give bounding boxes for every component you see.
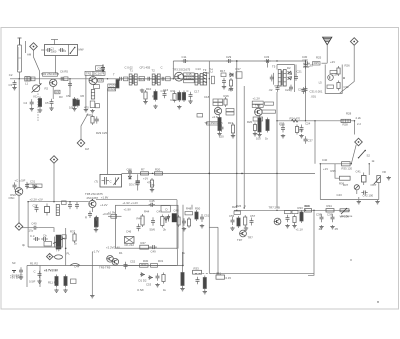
resistor R12: [178, 91, 181, 103]
svg-text:C43: C43: [337, 193, 343, 197]
capacitor C43 box: [71, 279, 77, 284]
svg-text:C22: C22: [285, 88, 291, 92]
wire V6 R28 down: [354, 121, 356, 135]
svg-text:TR6: TR6: [255, 103, 261, 107]
svg-text:+3V BATT: +3V BATT: [10, 276, 23, 280]
wire V14: [182, 252, 184, 271]
wire V5: [314, 121, 316, 164]
transistor TR4: [214, 107, 221, 114]
diode D5: [140, 273, 145, 276]
capacitor C5: [50, 99, 54, 107]
svg-text:R7: R7: [141, 168, 145, 172]
svg-text:R30: R30: [141, 263, 147, 267]
svg-text:C40: C40: [322, 158, 328, 162]
junction: [236, 60, 237, 61]
ground mid cluster: [244, 227, 248, 231]
svg-text:47k: 47k: [150, 183, 155, 187]
junction osc right: [65, 248, 67, 250]
svg-text:220: 220: [219, 135, 224, 139]
svg-text:earphone: earphone: [341, 214, 353, 218]
resistor R43: [64, 275, 67, 288]
svg-text:R29 C25: R29 C25: [96, 131, 107, 135]
svg-text:R44: R44: [144, 210, 150, 214]
resistor R33 box: [193, 270, 202, 274]
switch S2: [358, 150, 366, 159]
ground C51: [200, 224, 204, 228]
svg-text:R33: R33: [298, 206, 304, 210]
ground R10: [143, 100, 147, 104]
IF transformer T1: [129, 74, 137, 85]
resistor R23: [295, 125, 298, 135]
volume control VR1: [340, 208, 349, 214]
junction: [236, 210, 237, 211]
ground C45b: [37, 280, 41, 284]
ground TR2 left: [84, 108, 88, 112]
svg-text:AM: AM: [27, 53, 32, 57]
ground C19: [222, 85, 226, 89]
resistor R37: [73, 232, 76, 243]
wire TP6 right: [21, 227, 32, 229]
capacitor C9 box: [98, 78, 103, 82]
svg-text:+1.9V: +1.9V: [108, 210, 116, 214]
wire bottom mid rail2: [125, 265, 177, 267]
svg-text:CF1: CF1: [139, 77, 145, 81]
wire top rail: [173, 60, 305, 62]
svg-text:C38: C38: [316, 213, 322, 217]
capacitor C54: [196, 277, 200, 285]
resistor R9h box: [124, 77, 128, 81]
capacitor C19: [222, 78, 226, 86]
wire TR8 down: [91, 208, 93, 213]
ground chain1: [153, 105, 157, 109]
svg-text:C51: C51: [216, 271, 222, 275]
resistor R21: [258, 116, 261, 134]
resistor R47 box: [140, 245, 149, 249]
svg-text:C52: C52: [130, 260, 136, 264]
lamp/ellipse symbol: [55, 255, 63, 259]
svg-text:17p: 17p: [29, 229, 34, 233]
resistor R60: [300, 210, 303, 223]
test point TP2: [350, 38, 358, 46]
oscillator coil T7: [53, 235, 65, 249]
resistor R52 box: [151, 264, 158, 268]
capacitor C8 box: [95, 104, 99, 108]
junction: [27, 201, 28, 202]
wire conv left: [295, 65, 297, 76]
label T3 box: [184, 75, 195, 79]
ground R19: [231, 134, 235, 138]
svg-text:C2: C2: [63, 49, 67, 53]
svg-text:R31: R31: [158, 259, 164, 263]
transistor TR3: [175, 72, 184, 81]
ground C50: [182, 227, 186, 231]
wire det top: [277, 64, 295, 66]
wire TR2 label down: [85, 75, 87, 108]
diode D2: [288, 71, 292, 74]
svg-text:C5: C5: [45, 101, 49, 105]
junction: [354, 120, 355, 121]
junction: [236, 173, 237, 174]
wire TR1 emitter: [52, 87, 54, 100]
junction: [313, 210, 314, 211]
ground rc2: [292, 224, 296, 228]
capacitor C44: [19, 267, 23, 275]
coil T4 primary: [203, 73, 206, 86]
svg-text:T2: T2: [152, 69, 156, 73]
ground R21: [257, 133, 261, 137]
svg-text:3p: 3p: [22, 243, 26, 247]
junction: [276, 120, 277, 121]
svg-text:C19: C19: [228, 88, 234, 92]
svg-text:C21: C21: [297, 70, 303, 74]
wire RF rail: [10, 78, 207, 80]
svg-text:C17: C17: [194, 90, 200, 94]
ground R54: [180, 287, 184, 291]
diode D3: [288, 77, 292, 80]
electrolytic C41: [362, 173, 367, 186]
capacitor C29: [226, 59, 233, 63]
resistor R39 small: [95, 218, 98, 227]
capacitor C51: [200, 214, 204, 222]
wire V13: [177, 249, 179, 265]
resistor R63 box: [155, 172, 163, 175]
resistor R8 box: [90, 101, 95, 108]
transistor TR9a: [107, 255, 114, 262]
tuning capacitor VC1: [32, 84, 42, 93]
resistor R5: [64, 77, 68, 81]
svg-text:C39: C39: [327, 213, 333, 217]
wire R36 loop: [335, 164, 340, 178]
resistor R28 body: [341, 119, 351, 122]
svg-text:0.5/F: 0.5/F: [29, 280, 36, 284]
svg-text:R37: R37: [343, 183, 349, 187]
wire bottom rail entry: [209, 226, 218, 228]
label right of TR6: [265, 102, 274, 105]
svg-text:T4: T4: [210, 68, 214, 72]
svg-text:T5: T5: [272, 65, 276, 69]
svg-text:+1.7V: +1.7V: [92, 250, 100, 254]
svg-text:C37: C37: [308, 139, 314, 143]
wire osc bottom: [28, 246, 62, 248]
svg-text:C23: C23: [279, 122, 285, 126]
ground C3: [12, 86, 16, 90]
capacitor C2: [59, 48, 65, 52]
svg-text:4.7k: 4.7k: [170, 98, 176, 102]
svg-text:C13: C13: [196, 67, 202, 71]
svg-text:R25: R25: [314, 61, 320, 65]
ground T2: [90, 109, 94, 113]
junction AGC a: [209, 173, 211, 175]
svg-text:VR: VR: [382, 170, 386, 174]
capacitor C7: [68, 81, 72, 88]
capacitor C35: [304, 62, 308, 68]
ground right cluster: [285, 224, 289, 228]
diode D6: [148, 276, 153, 279]
svg-text:C49: C49: [151, 250, 157, 254]
junction: [209, 78, 210, 79]
ground C56: [230, 227, 234, 231]
wire V4 right: [305, 61, 307, 121]
IC X1 box: [124, 237, 134, 244]
filter CF3 box: [236, 72, 242, 78]
resistor R27 zigzag: [292, 119, 299, 122]
label TR6 l2: [252, 103, 263, 107]
junction: [369, 163, 370, 164]
svg-text:R3: R3: [56, 90, 60, 94]
svg-text:C32: C32: [344, 85, 350, 89]
label C15 box: [184, 72, 195, 76]
svg-text:R47: R47: [141, 241, 147, 245]
capacitor C42: [361, 191, 367, 195]
svg-text:R25: R25: [316, 56, 322, 60]
svg-text:C24: C24: [305, 122, 311, 126]
capacitor C6: [59, 77, 65, 81]
svg-text:R20: R20: [247, 120, 253, 124]
coil L2: [31, 77, 35, 81]
ground R31: [94, 228, 98, 232]
capacitor pair Cb: [41, 237, 48, 241]
svg-text:D: D: [166, 208, 168, 212]
svg-text:C51: C51: [204, 214, 210, 218]
svg-text:+C o.5/F: +C o.5/F: [15, 179, 26, 183]
wire TP5 down: [53, 163, 55, 201]
svg-text:+1V: +1V: [143, 177, 148, 181]
filter CF2: [166, 77, 171, 81]
wire TP2 down: [340, 45, 355, 93]
junction: [276, 60, 277, 61]
junction: [19, 78, 20, 79]
svg-text:C53: C53: [146, 283, 152, 287]
svg-text:R11 R12: R11 R12: [48, 281, 59, 285]
ground R15: [217, 132, 221, 136]
svg-text:C44: C44: [74, 265, 80, 269]
wire bottom rail dashes: [195, 272, 218, 274]
junction: [53, 201, 54, 202]
svg-text:C41: C41: [356, 170, 362, 174]
audio block box outline: [116, 205, 179, 248]
resistor R17 box: [221, 73, 226, 77]
diode D4: [165, 216, 168, 223]
box right of T7: [62, 235, 66, 239]
coil L4 dark: [116, 80, 119, 89]
capacitor C21: [276, 85, 280, 92]
svg-text:C9: C9: [97, 66, 101, 70]
capacitor C23: [281, 125, 285, 133]
wire TR4 emitter: [218, 114, 220, 117]
transistor TR12 FM conv: [328, 75, 334, 81]
wire C40 to osc: [38, 228, 54, 232]
wire gang link: [37, 94, 39, 123]
svg-text:+1.5V: +1.5V: [331, 73, 339, 77]
capacitor C17: [189, 92, 193, 100]
ground C44: [19, 276, 23, 280]
junction arrow AGC: [101, 65, 105, 73]
earphone jack J1: [354, 185, 359, 194]
capacitor C47: [151, 217, 155, 225]
ground R55: [203, 290, 207, 294]
junction: [209, 173, 210, 174]
wire TR5 down: [18, 195, 20, 222]
wire V10 left: [39, 266, 41, 288]
resistor R36 box: [340, 176, 351, 180]
resistor R3: [55, 90, 60, 94]
svg-text:R30: R30: [143, 259, 149, 263]
svg-text:+2.2V/2.4V: +2.2V/2.4V: [106, 246, 120, 250]
svg-text:C6 R5: C6 R5: [60, 70, 68, 74]
ground C5: [49, 107, 53, 111]
svg-text:+1V: +1V: [323, 167, 328, 171]
label TR6 l1: [252, 101, 263, 104]
capacitor C52: [124, 262, 128, 270]
capacitor C45b: [38, 271, 42, 279]
wire S1 to TR1 label: [55, 56, 57, 73]
ground C17: [188, 100, 192, 104]
svg-text:C56: C56: [229, 214, 235, 218]
wire conv box: [325, 65, 342, 94]
wire det left: [273, 73, 275, 85]
svg-text:TR7 2SB: TR7 2SB: [269, 206, 280, 210]
svg-text:C9: C9: [99, 78, 103, 82]
junction: [276, 173, 277, 174]
svg-text:C18: C18: [204, 95, 210, 99]
svg-text:D3 (TR): D3 (TR): [129, 183, 139, 187]
wire V7 down right: [308, 210, 314, 275]
box below TR6: [253, 117, 263, 121]
wire V8 osc: [27, 202, 29, 247]
capacitor C24: [300, 125, 304, 133]
label 0.022: [108, 87, 116, 91]
IF transformer T3: [195, 74, 203, 86]
svg-text:+2.2V +2V: +2.2V +2V: [30, 198, 43, 202]
wire TR6 up: [257, 105, 259, 109]
svg-text:(T): (T): [95, 180, 99, 184]
resistor R61: [293, 215, 296, 225]
resistor R20: [253, 123, 256, 133]
capacitor C40: [32, 226, 38, 230]
label left TR6 b: [226, 112, 234, 115]
resistor R10: [144, 90, 147, 101]
wire audio top: [320, 163, 351, 165]
svg-text:R44: R44: [137, 217, 143, 221]
ground bot left a: [54, 289, 58, 293]
capacitor C22: [289, 85, 293, 92]
svg-text:100: 100: [256, 137, 261, 141]
junction: [69, 201, 70, 202]
transformer T8 box: [161, 206, 170, 212]
resistor R45: [161, 215, 164, 228]
resistor R38: [95, 217, 98, 221]
resistor R42: [55, 275, 58, 288]
ground bot left b: [63, 289, 67, 293]
svg-text:VC: VC: [33, 95, 37, 99]
transistor TR7: [240, 230, 247, 237]
wire TP1 to tuner: [34, 50, 40, 84]
capacitor C3 input: [13, 80, 17, 87]
svg-text:C47: C47: [157, 210, 163, 214]
label left TR6 a: [226, 109, 234, 112]
resistor R33a: [95, 216, 98, 220]
svg-text:R2: R2: [45, 87, 49, 91]
label conv2: [327, 85, 334, 88]
resistor R64: [150, 178, 153, 189]
svg-text:C4: C4: [24, 101, 28, 105]
capacitor C1: [46, 48, 52, 52]
transistor TR8: [89, 200, 96, 207]
resistor R62 box: [141, 172, 149, 175]
wire V3 detector down: [276, 92, 278, 208]
capacitor C30: [303, 61, 310, 65]
svg-text:+1.9V +1.2V: +1.9V +1.2V: [122, 201, 138, 205]
svg-text:R16: R16: [224, 94, 230, 98]
wire box left lead: [41, 49, 45, 51]
svg-text:+1.8V: +1.8V: [101, 196, 109, 200]
capacitor C57: [250, 218, 254, 226]
svg-text:C57: C57: [250, 214, 256, 218]
svg-text:C3: C3: [9, 83, 13, 87]
T4 secondary box: [211, 76, 214, 84]
wire stub vertical: [54, 40, 56, 45]
wire T4 link: [205, 72, 209, 74]
resistor R53: [162, 273, 165, 284]
svg-text:D2: D2: [287, 66, 291, 70]
box osc values: [44, 242, 52, 247]
wire antenna stub: [25, 41, 27, 53]
resistor R51 box: [140, 263, 149, 267]
svg-text:+0.8: +0.8: [212, 115, 218, 119]
wire T8 right vertical: [176, 200, 178, 249]
svg-text:T1: T1: [130, 69, 134, 73]
electrolytic C48: [172, 214, 177, 223]
svg-text:+1.2V: +1.2V: [100, 203, 108, 207]
svg-text:C16: C16: [163, 88, 169, 92]
capacitor C32: [294, 74, 298, 81]
label TR6 row: [262, 110, 276, 113]
transistor TR2: [89, 77, 97, 85]
transistor TR5: [15, 188, 23, 196]
svg-text:+2V: +2V: [330, 60, 335, 64]
label box misc: [184, 80, 195, 83]
wire det right: [294, 65, 296, 93]
resistor R57: [237, 216, 240, 228]
resistor R34 box: [326, 209, 334, 212]
junction: [107, 78, 108, 79]
svg-text:C31 0.001: C31 0.001: [310, 90, 323, 94]
capacitor C13: [146, 77, 152, 81]
capacitor C56: [231, 217, 235, 225]
wire det feed: [276, 65, 278, 70]
transistor TR9b: [112, 259, 119, 266]
svg-text:CF1 455: CF1 455: [140, 66, 151, 70]
test point TP5: [50, 156, 58, 164]
capacitor C33: [264, 59, 271, 63]
resistor R44: [141, 214, 144, 227]
capacitor pair Ca: [33, 237, 40, 241]
ground R18: [229, 87, 233, 91]
diode D4b: [167, 215, 170, 222]
resistor R29: [91, 115, 94, 126]
label TR4 line2: [213, 102, 223, 105]
resistor R14 box: [197, 114, 203, 117]
resistor R26: [337, 66, 340, 76]
test point TP1: [30, 43, 38, 51]
capacitor C37: [304, 136, 308, 144]
capacitor C49: [150, 245, 157, 249]
svg-text:R37: R37: [70, 230, 76, 234]
ground audio: [387, 176, 391, 180]
capacitor C12: [117, 77, 124, 81]
FM antenna symbol: [323, 37, 332, 63]
svg-text:R: R: [85, 216, 87, 220]
